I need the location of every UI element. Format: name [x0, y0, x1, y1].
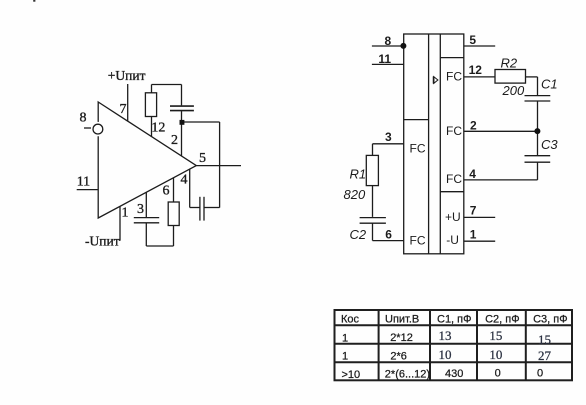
- svg-text:7: 7: [120, 102, 127, 117]
- svg-text:C3: C3: [541, 137, 558, 152]
- svg-text:2*6: 2*6: [390, 350, 407, 362]
- svg-text:3: 3: [385, 130, 392, 144]
- svg-text:2: 2: [171, 133, 178, 148]
- svg-text:6: 6: [385, 228, 392, 242]
- svg-text:0: 0: [537, 367, 543, 379]
- svg-text:-U: -U: [446, 233, 459, 247]
- svg-text:R2: R2: [501, 55, 518, 70]
- svg-text:FC: FC: [410, 142, 426, 156]
- svg-text:2: 2: [470, 119, 477, 133]
- svg-text:-Uпит: -Uпит: [85, 234, 120, 249]
- svg-text:1: 1: [470, 227, 477, 241]
- svg-text:2*12: 2*12: [390, 332, 413, 344]
- svg-text:5: 5: [469, 33, 476, 47]
- svg-text:С1, пФ: С1, пФ: [437, 314, 472, 326]
- svg-text:+Uпит: +Uпит: [108, 68, 146, 83]
- svg-text:13: 13: [439, 328, 452, 343]
- svg-text:10: 10: [489, 347, 502, 362]
- svg-text:15: 15: [489, 328, 502, 343]
- svg-text:5: 5: [199, 151, 206, 166]
- svg-text:+U: +U: [445, 210, 461, 224]
- svg-text:1: 1: [122, 206, 129, 221]
- svg-text:6: 6: [163, 184, 170, 199]
- svg-text:11: 11: [77, 175, 90, 190]
- svg-text:200: 200: [502, 83, 525, 98]
- svg-text:1: 1: [342, 332, 348, 344]
- svg-text:10: 10: [439, 347, 452, 362]
- svg-text:4: 4: [181, 173, 188, 188]
- svg-text:820: 820: [344, 187, 366, 202]
- svg-text:C1: C1: [541, 76, 558, 91]
- svg-text:>10: >10: [342, 369, 361, 381]
- svg-text:3: 3: [137, 202, 144, 217]
- svg-text:0: 0: [495, 367, 501, 379]
- svg-text:11: 11: [378, 52, 391, 66]
- svg-text:Uпит.В: Uпит.В: [385, 314, 419, 326]
- svg-text:7: 7: [470, 203, 477, 217]
- svg-text:C2: C2: [350, 227, 367, 242]
- svg-text:Кос: Кос: [341, 314, 360, 326]
- svg-text:FC: FC: [410, 234, 426, 248]
- svg-text:15: 15: [538, 332, 551, 347]
- svg-text:12: 12: [151, 121, 165, 136]
- svg-text:R1: R1: [350, 167, 367, 182]
- svg-text:4: 4: [469, 167, 476, 181]
- svg-text:1: 1: [342, 350, 348, 362]
- svg-text:С2, пФ: С2, пФ: [485, 314, 519, 326]
- svg-text:8: 8: [385, 34, 392, 48]
- svg-text:FC: FC: [446, 69, 462, 83]
- svg-text:27: 27: [538, 348, 552, 363]
- svg-text:8: 8: [80, 111, 87, 126]
- svg-text:FC: FC: [446, 124, 462, 138]
- svg-text:2*(6...12): 2*(6...12): [385, 369, 430, 381]
- svg-text:FC: FC: [446, 172, 462, 186]
- svg-text:12: 12: [469, 63, 483, 77]
- svg-text:430: 430: [445, 368, 463, 380]
- svg-text:С3, пФ: С3, пФ: [533, 314, 568, 326]
